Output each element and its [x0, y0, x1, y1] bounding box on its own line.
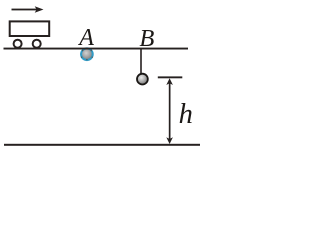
- ball at A: [80, 47, 94, 61]
- svg-text:h: h: [179, 99, 193, 130]
- dimension arrow shaft: [169, 82, 171, 139]
- table / track line: [4, 48, 189, 50]
- svg-text:B: B: [139, 25, 154, 52]
- string at B: [140, 50, 142, 74]
- reference cap line: [158, 76, 183, 78]
- cart wheel right: [33, 40, 41, 48]
- ball at B: [137, 74, 148, 85]
- cart body: [10, 21, 50, 36]
- dimension arrow head up: [166, 78, 173, 85]
- dimension arrow head down: [166, 137, 173, 144]
- cart wheel left: [14, 40, 22, 48]
- ground line: [4, 144, 200, 146]
- svg-text:A: A: [77, 25, 94, 51]
- velocity arrow above cart: [12, 6, 44, 12]
